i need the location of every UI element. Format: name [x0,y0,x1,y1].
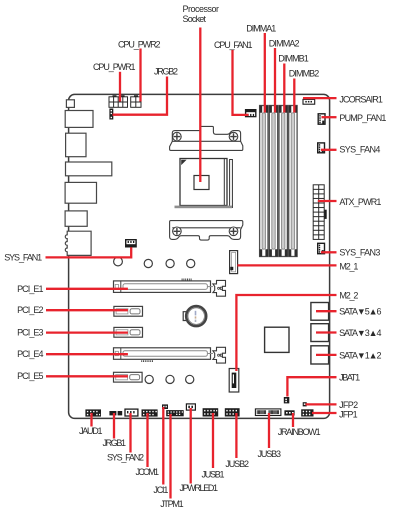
svg-text:SATA▼5▲6: SATA▼5▲6 [339,307,381,317]
leader JRGB1 [113,413,115,439]
mounting hole row 2 [145,375,153,383]
leader JRGB2 [113,77,168,115]
svg-text:PCI_E4: PCI_E4 [17,349,43,359]
leader PCI_E2 [46,309,128,311]
leader JUSB3 [268,413,270,448]
svg-text:PUMP_FAN1: PUMP_FAN1 [339,113,386,123]
svg-text:SYS_FAN1: SYS_FAN1 [4,253,42,263]
connector CPU_FAN1 [245,109,257,117]
leader JFP1 [312,412,337,414]
DIMM slot DIMMA2 [269,106,277,257]
connector JAUD1 [85,409,101,416]
svg-text:JRGB2: JRGB2 [154,67,178,77]
svg-text:M2_2: M2_2 [339,291,358,301]
connector SYS_FAN3 [317,243,325,255]
connector CPU_PWR2 (4-pin) [131,95,141,107]
svg-text:DIMMB1: DIMMB1 [278,54,309,64]
leader DIMMB2 [293,79,295,113]
leader DIMMB1 [283,64,285,113]
PCI_E2 slot (x1) [114,306,143,316]
connector JUSB1 [203,408,219,416]
rear IO block B [66,133,86,157]
PCI_E3 slot (x1) [114,327,143,337]
svg-text:PCI_E3: PCI_E3 [17,328,43,338]
connector JUSB3 (type-C header) [255,409,281,416]
board outline [69,94,330,418]
chipset [265,327,289,352]
svg-text:SYS_FAN2: SYS_FAN2 [107,452,144,462]
leader JUSB1 [212,413,214,468]
svg-text:Socket: Socket [183,14,207,24]
connector JRGB2 [109,109,113,120]
leader CPU_PWR1 [119,72,121,102]
SATA ports 3/4 [311,324,329,342]
svg-text:JCI1: JCI1 [153,485,168,495]
connector JTPM1 [166,410,184,416]
leader M2_2 [236,295,336,371]
connector SYS_FAN1 [125,239,137,248]
PCI_E1 slot (x16) [114,281,211,293]
DIMM slot DIMMB2 [289,106,297,257]
svg-text:SATA▼1▲2: SATA▼1▲2 [339,350,381,360]
svg-text:ATX_PWR1: ATX_PWR1 [339,197,381,207]
leader CPU_FAN1 [233,50,249,115]
connector CPU_PWR1 (8-pin) [109,95,128,107]
leader JAUD1 [90,413,92,427]
rear IO block A [65,111,93,128]
leader JPWRLED1 [190,408,192,484]
leader SYS_FAN2 [129,413,131,453]
svg-text:CPU_PWR2: CPU_PWR2 [118,40,161,50]
DIMM slot DIMMB1 [279,106,287,257]
DIMM slot DIMMA1 [260,106,268,257]
connector JFP2 [303,402,307,406]
leader SATA 1/2 [316,354,337,356]
socket retention bracket bottom [170,221,243,241]
leader DIMMA2 [274,48,276,113]
leader Processor Socket [199,28,201,183]
connector JCORSAIR1 [303,99,315,104]
leader ATX_PWR1 [318,200,337,202]
socket retention bracket top [170,126,243,150]
svg-text:PCI_E5: PCI_E5 [17,371,43,381]
svg-text:SYS_FAN3: SYS_FAN3 [339,248,380,258]
leader SYS_FAN1 [46,247,132,257]
svg-text:JRGB1: JRGB1 [103,438,127,448]
leader PCI_E5 [46,375,128,377]
leader PCI_E1 [46,288,128,290]
silk marks above PCI_E1 [182,279,192,281]
leader SATA 5/6 [316,310,337,312]
socket corner mark [181,160,186,165]
CPU socket square [180,159,232,208]
svg-text:PCI_E2: PCI_E2 [17,305,43,315]
connector JCI1 [162,404,168,409]
connector JBAT1 [284,397,290,403]
leader JUSB2 [235,413,237,458]
svg-text:JFP1: JFP1 [339,409,358,419]
svg-text:JRAINBOW1: JRAINBOW1 [278,427,321,437]
svg-text:M2_1: M2_1 [339,261,358,271]
rear IO small square [66,100,74,108]
svg-text:DIMMA1: DIMMA1 [246,24,276,34]
connector ATX_PWR1 (24-pin) [313,185,326,240]
leader JBAT1 [287,377,336,396]
connector JPWRLED1 [186,404,195,410]
leader SYS_FAN4 [321,149,337,151]
rear IO block D [65,182,96,203]
svg-text:Processor: Processor [183,4,220,14]
leader PCI_E3 [46,331,128,333]
leader PUMP_FAN1 [322,116,337,118]
svg-text:JPWRLED1: JPWRLED1 [180,483,219,493]
svg-text:CPU_PWR1: CPU_PWR1 [93,62,136,72]
svg-text:JUSB3: JUSB3 [258,449,282,459]
connector SYS_FAN4 [317,142,325,153]
svg-text:JTPM1: JTPM1 [160,499,183,509]
svg-text:JCOM1: JCOM1 [136,467,160,477]
connector SYS_FAN2 [125,409,138,416]
SATA ports 1/2 [311,346,329,364]
svg-text:JBAT1: JBAT1 [339,373,360,383]
svg-text:DIMMA2: DIMMA2 [269,39,300,49]
rear IO block C [66,162,112,176]
leader JCORSAIR1 [303,97,337,99]
connector JFP1 [301,409,313,416]
svg-text:JCORSAIR1: JCORSAIR1 [339,94,383,104]
leader JFP2 [306,403,337,405]
rear IO audio block [65,231,91,255]
PCI_E1 latch [213,280,226,296]
connector PUMP_FAN1 [318,113,326,125]
connector JRAINBOW1 [284,410,294,415]
svg-text:JUSB2: JUSB2 [225,459,249,469]
mounting hole row 1 [114,257,123,266]
M2 slot M2_2 [229,369,239,393]
svg-text:SATA▼3▲4: SATA▼3▲4 [339,328,381,338]
PCI_E4 slot (x16) [114,348,211,360]
leader JRAINBOW1 [292,413,294,427]
silk marks below PCI_E4 [141,360,153,362]
svg-text:CPU_FAN1: CPU_FAN1 [214,40,253,50]
leader JTPM1 [169,414,171,499]
leader DIMMA1 [264,33,266,113]
connector JCOM1 [142,409,158,416]
svg-text:DIMMB2: DIMMB2 [289,69,320,79]
PCI_E5 slot (x1) [114,372,143,382]
leader M2_1 [237,264,336,266]
socket bottom gray bar [175,206,233,209]
battery [183,306,206,326]
leader JCOM1 [146,413,148,467]
svg-text:PCI_E1: PCI_E1 [17,284,43,294]
leader PCI_E4 [46,353,128,355]
svg-text:JUSB1: JUSB1 [202,469,225,479]
M2 slot M2_1 [230,251,238,274]
leader CPU_PWR2 [139,49,141,102]
leader SATA 3/4 [316,331,337,333]
SATA ports 5/6 [311,303,329,321]
svg-text:SYS_FAN4: SYS_FAN4 [339,144,380,154]
leader JCI1 [162,407,164,485]
connector JRGB1 [109,411,122,415]
svg-text:JAUD1: JAUD1 [79,426,103,436]
socket inner square [194,176,209,190]
rear IO block E [65,211,87,226]
PCI_E4 latch [213,347,226,363]
leader SYS_FAN3 [321,251,337,253]
connector JUSB2 [225,408,240,416]
